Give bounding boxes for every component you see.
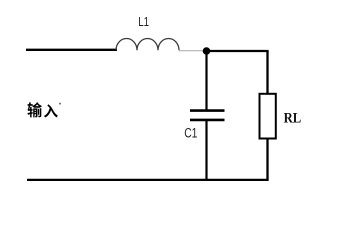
wire: resistor to bottom rail <box>266 139 268 181</box>
node: junction of L1, C1, RL branch <box>203 47 211 55</box>
resistor RL <box>260 94 302 139</box>
wire: node down to capacitor <box>205 51 207 110</box>
wire: input top rail left segment <box>26 49 117 51</box>
svg-text:C1: C1 <box>184 126 197 141</box>
wire: capacitor to bottom rail <box>205 120 207 181</box>
svg-text:L1: L1 <box>138 14 149 29</box>
inductor L1 <box>116 14 179 51</box>
svg-text:RL: RL <box>284 110 302 126</box>
label: 输入 (input) <box>28 102 62 117</box>
wire: inductor to node (thin) <box>179 50 204 52</box>
capacitor C1 <box>184 111 224 141</box>
wire: node to top-right corner <box>208 50 269 52</box>
wire: bottom rail <box>27 179 269 181</box>
wire: right vertical down to resistor <box>266 51 268 95</box>
